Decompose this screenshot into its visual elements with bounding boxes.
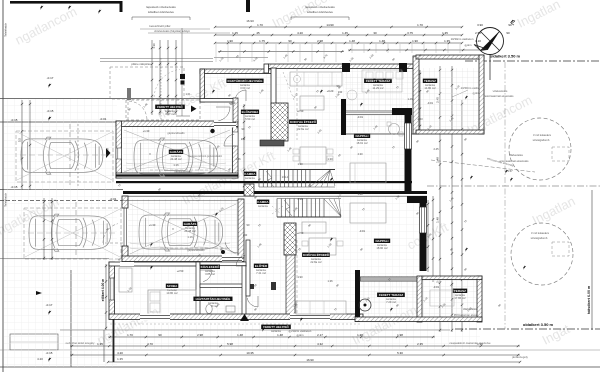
- svg-text:22.8a m2: 22.8a m2: [310, 260, 322, 264]
- svg-text:2.98: 2.98: [297, 197, 303, 201]
- haztartasi B: [193, 297, 232, 301]
- svg-text:18.90 m2: 18.90 m2: [376, 246, 388, 250]
- dining table A: [300, 147, 326, 164]
- svg-text:1.48: 1.48: [357, 192, 363, 196]
- svg-text:-0.01: -0.01: [357, 115, 363, 119]
- terrace A furniture: [362, 70, 402, 92]
- svg-text:90: 90: [288, 39, 292, 43]
- terrace A walls: [344, 64, 416, 69]
- svg-text:3 m2 kukavács: 3 m2 kukavács: [533, 133, 552, 137]
- storage room walls: [200, 69, 272, 74]
- bottom entry label: [261, 325, 291, 329]
- svg-text:10.80 m2: 10.80 m2: [166, 291, 178, 295]
- parking space dashes: [16, 131, 113, 182]
- svg-text:Walvezetés: Walvezetés: [509, 153, 523, 157]
- driveway lines: [0, 121, 117, 123]
- sofa A: [350, 163, 386, 183]
- svg-text:csapadékvíz csatornán elvezetv: csapadékvíz csatornán elvezetve: [449, 341, 491, 345]
- svg-text:KAMRA: KAMRA: [257, 200, 269, 204]
- svg-text:KAMRA: KAMRA: [244, 172, 256, 176]
- svg-text:5.98: 5.98: [227, 342, 233, 346]
- right dim chains: [439, 66, 441, 332]
- svg-text:erevizcsatornán elvezetés: erevizcsatornán elvezetés: [482, 94, 514, 98]
- eresz leader right: [431, 160, 535, 172]
- top dimension chains: [215, 26, 462, 28]
- bottom-left patio: [10, 334, 58, 350]
- svg-text:30: 30: [373, 31, 377, 35]
- svg-text:1.35: 1.35: [97, 342, 103, 346]
- svg-text:240: 240: [241, 137, 246, 141]
- property boundary left: [2, 0, 4, 372]
- svg-text:GARÁZS: GARÁZS: [184, 221, 197, 226]
- svg-text:nehezhet térkő szegély: nehezhet térkő szegély: [66, 341, 95, 345]
- svg-text:TERASZ: TERASZ: [454, 289, 466, 293]
- party line extension right: [427, 185, 600, 187]
- svg-text:4.20: 4.20: [297, 31, 303, 35]
- svg-text:2.17: 2.17: [317, 333, 323, 337]
- terasz B: [453, 289, 467, 293]
- svg-text:1.36: 1.36: [235, 157, 241, 161]
- svg-text:1.90: 1.90: [297, 275, 303, 279]
- svg-text:1.45: 1.45: [342, 31, 348, 35]
- party wall band: [116, 181, 412, 183]
- svg-text:gyám: gyám: [297, 333, 305, 337]
- svg-text:1.48: 1.48: [277, 333, 283, 337]
- svg-text:gépkocsibeálló: gépkocsibeálló: [174, 170, 192, 174]
- svg-text:-0.01: -0.01: [110, 197, 117, 201]
- kitchen counter B: [296, 301, 346, 314]
- svg-text:14.90: 14.90: [326, 23, 334, 27]
- svg-text:lapostető vízelvezetés: lapostető vízelvezetés: [305, 5, 335, 9]
- svg-text:4.20: 4.20: [37, 357, 43, 361]
- garage B floor X: [130, 204, 236, 254]
- bottom dim chains: [108, 336, 435, 338]
- car 2 driveway: [29, 214, 111, 251]
- svg-text:1.38: 1.38: [357, 333, 363, 337]
- svg-text:3 m2 kukavács: 3 m2 kukavács: [531, 231, 550, 235]
- svg-text:4.32: 4.32: [317, 342, 323, 346]
- svg-text:4.30: 4.30: [357, 152, 363, 156]
- svg-text:+2.50: +2.50: [177, 269, 184, 273]
- terrace B walls: [355, 270, 360, 322]
- svg-text:45: 45: [256, 31, 260, 35]
- svg-text:GARÁZS: GARÁZS: [170, 149, 183, 154]
- garage B walls: [122, 196, 128, 208]
- svg-text:gyám: gyám: [465, 43, 473, 47]
- svg-text:hátsókert 6.00 m: hátsókert 6.00 m: [587, 286, 591, 314]
- kozlekedo B: [200, 265, 220, 269]
- svg-text:gépkocsibeálló: gépkocsibeálló: [167, 131, 185, 135]
- svg-text:7.29 m2: 7.29 m2: [386, 300, 396, 304]
- svg-text:24.48 m2: 24.48 m2: [184, 229, 196, 233]
- svg-text:1.30: 1.30: [327, 157, 333, 161]
- entry arrow B: [240, 314, 249, 321]
- svg-text:KONYHA ÉTKEZŐ: KONYHA ÉTKEZŐ: [303, 252, 330, 257]
- svg-text:-0.15: -0.15: [46, 351, 53, 355]
- svg-text:kerámia: kerámia: [271, 329, 281, 333]
- svg-text:1.35: 1.35: [444, 39, 450, 43]
- chimney wall A crosshatch: [271, 68, 276, 105]
- svg-text:1.48: 1.48: [436, 217, 440, 223]
- porch right wall A: [233, 98, 238, 122]
- driveway center dashes: [20, 154, 112, 156]
- svg-text:X: X: [149, 152, 151, 156]
- garage A floor X: [124, 130, 230, 172]
- svg-text:+1.30: +1.30: [143, 129, 150, 133]
- drain dot: [210, 129, 214, 133]
- svg-text:10/30cm vasbeton: 10/30cm vasbeton: [451, 37, 474, 41]
- svg-text:2.98: 2.98: [197, 333, 203, 337]
- svg-text:7.41 m2: 7.41 m2: [256, 271, 266, 275]
- car in garage B: [139, 213, 223, 251]
- kamra A: [244, 172, 256, 176]
- svg-text:-0.01: -0.01: [433, 285, 439, 289]
- svg-text:1.16: 1.16: [187, 235, 193, 239]
- svg-text:KONYHA ÉTKEZŐ: KONYHA ÉTKEZŐ: [290, 119, 317, 124]
- stair B: [276, 199, 278, 218]
- svg-text:5.30: 5.30: [397, 351, 403, 355]
- garage B label: [183, 222, 197, 226]
- svg-text:2.03: 2.03: [417, 117, 423, 121]
- column circle B: [359, 299, 371, 311]
- szoba B walls: [109, 262, 115, 319]
- svg-text:1.36: 1.36: [327, 279, 333, 283]
- paving grid driveway: [4, 99, 117, 367]
- kitchen counter A: [290, 72, 342, 86]
- dining table B: [309, 238, 336, 255]
- svg-text:2.35: 2.35: [417, 342, 423, 346]
- svg-text:1.46: 1.46: [407, 97, 413, 101]
- setback vertical dash right: [504, 62, 506, 329]
- svg-text:1.75: 1.75: [259, 39, 265, 43]
- svg-text:1.98: 1.98: [397, 333, 403, 337]
- kitchen cupboard dash A: [296, 68, 298, 140]
- svg-text:1.90: 1.90: [227, 39, 233, 43]
- svg-text:22.8a m2: 22.8a m2: [297, 127, 309, 131]
- elősz A: [241, 110, 259, 114]
- garage A walls: [116, 121, 238, 127]
- garage B west door arc: [103, 224, 123, 243]
- svg-text:1.25: 1.25: [232, 31, 238, 35]
- extra tick chains near walls: [348, 49, 484, 51]
- car 1 driveway: [21, 137, 103, 174]
- svg-text:vízelvezetés: vízelvezetés: [493, 89, 508, 93]
- svg-text:1.16: 1.16: [152, 43, 156, 49]
- nappali A right wall: [405, 115, 412, 191]
- svg-text:18.91 m2: 18.91 m2: [356, 141, 368, 145]
- soakaway circle 1: [509, 118, 571, 180]
- svg-text:+2.50: +2.50: [229, 101, 236, 105]
- svg-text:1.48: 1.48: [349, 39, 355, 43]
- bottom wall unit B: [109, 314, 363, 320]
- fence bar left: [113, 319, 115, 362]
- svg-text:X: X: [172, 227, 174, 231]
- svg-text:NAPPALI: NAPPALI: [376, 239, 389, 243]
- svg-text:kerámia: kerámia: [245, 176, 255, 180]
- pergola lines above garage A: [100, 58, 213, 60]
- interior floor grids: [123, 122, 233, 174]
- svg-text:240: 240: [243, 233, 248, 237]
- konyha A: [289, 120, 317, 124]
- svg-text:lapostető vízelvezetés: lapostető vízelvezetés: [146, 5, 176, 9]
- oldalkert bottom: [455, 328, 600, 330]
- eloter B: [254, 264, 268, 268]
- svg-text:-0.17: -0.17: [47, 76, 54, 80]
- svg-text:kötélben körülvetve: kötélben körülvetve: [307, 10, 333, 14]
- corner walls top right of nappali A: [392, 108, 412, 115]
- svg-text:Telekhatár: Telekhatár: [4, 23, 8, 37]
- svg-text:1.70: 1.70: [417, 23, 423, 27]
- terrace B table: [430, 290, 454, 306]
- svg-text:FEDETT HELYISŐ: FEDETT HELYISŐ: [157, 104, 183, 109]
- svg-text:-0.15: -0.15: [11, 118, 18, 122]
- svg-text:3.75: 3.75: [407, 31, 413, 35]
- site line y98: [0, 98, 213, 100]
- svg-text:1.48: 1.48: [379, 39, 385, 43]
- svg-text:16.90: 16.90: [246, 19, 254, 23]
- stair A: [258, 170, 260, 188]
- svg-text:oldalkert 3.50 m: oldalkert 3.50 m: [523, 322, 554, 327]
- svg-text:+2.50: +2.50: [297, 231, 304, 235]
- svg-text:-0.17: -0.17: [46, 303, 53, 307]
- svg-text:SZOBA: SZOBA: [167, 284, 178, 288]
- svg-text:4.70: 4.70: [147, 342, 153, 346]
- svg-text:1,01: 1,01: [185, 92, 191, 96]
- bed: [148, 290, 196, 314]
- drive2 bottom line: [0, 258, 109, 260]
- svg-text:szivárgódomb: szivárgódomb: [533, 138, 550, 142]
- svg-text:+0.20: +0.20: [327, 89, 334, 93]
- svg-text:3.85 m2: 3.85 m2: [205, 272, 215, 276]
- svg-text:3.60 m2: 3.60 m2: [240, 86, 250, 90]
- svg-text:-0.01: -0.01: [427, 101, 433, 105]
- roof drainage note brackets: [132, 16, 190, 18]
- terasz A: [423, 79, 437, 83]
- svg-text:kerámia: kerámia: [258, 204, 268, 208]
- svg-text:17.86 m2: 17.86 m2: [454, 296, 466, 300]
- svg-text:-0.15: -0.15: [47, 109, 54, 113]
- svg-text:1.70: 1.70: [257, 23, 263, 27]
- svg-text:vízelvezetés (folyóka) lefolyó: vízelvezetés (folyóka) lefolyó: [154, 29, 190, 33]
- svg-text:keresztirefő pillér: keresztirefő pillér: [149, 24, 170, 28]
- svg-text:16.90: 16.90: [306, 358, 314, 362]
- svg-text:RAKTÁROZÓ HELYISÉG: RAKTÁROZÓ HELYISÉG: [228, 78, 264, 83]
- svg-text:ELŐTÉR: ELŐTÉR: [255, 263, 268, 268]
- svg-text:1.90: 1.90: [412, 39, 418, 43]
- entry arrow A: [191, 106, 197, 113]
- svg-text:2.45: 2.45: [433, 147, 439, 151]
- hatsokert right edge: [591, 190, 593, 330]
- nappali A: [354, 134, 370, 138]
- svg-text:1.16: 1.16: [173, 163, 179, 167]
- svg-text:FEDETT TERASZ: FEDETT TERASZ: [366, 79, 391, 83]
- svg-text:90: 90: [506, 31, 510, 35]
- svg-text:2.98: 2.98: [317, 39, 323, 43]
- svg-text:5,5: 5,5: [18, 138, 22, 142]
- black column marks: [399, 63, 407, 72]
- svg-text:24.48 m2: 24.48 m2: [170, 157, 182, 161]
- entry porch dashed: [110, 67, 184, 99]
- nappali B right wall: [420, 199, 427, 271]
- dim extension drops top: [215, 44, 217, 62]
- car in garage A: [134, 138, 218, 176]
- wall terrace-nappali A: [344, 111, 410, 115]
- svg-text:3.90: 3.90: [477, 23, 483, 27]
- chimney wall B: [284, 223, 296, 255]
- svg-text:HÁZTARTÁSI HELYISÉG: HÁZTARTÁSI HELYISÉG: [196, 296, 231, 301]
- svg-text:11.29 m2: 11.29 m2: [372, 86, 384, 90]
- svg-text:+2.50: +2.50: [297, 109, 304, 113]
- svg-text:5.50 m2: 5.50 m2: [245, 117, 255, 121]
- oldalkert top: [465, 60, 600, 62]
- svg-text:járdaszegély: járdaszegély: [511, 355, 528, 359]
- svg-text:FEDETT TERASZ: FEDETT TERASZ: [379, 293, 404, 297]
- nappali B: [374, 239, 390, 243]
- svg-text:KÖZLEKEDŐ: KÖZLEKEDŐ: [201, 264, 221, 269]
- svg-text:TERASZ: TERASZ: [424, 79, 436, 83]
- svg-text:kötélben körülvetve: kötélben körülvetve: [148, 10, 174, 14]
- svg-text:1.48: 1.48: [237, 333, 243, 337]
- fedett terasz A: [364, 79, 392, 83]
- svg-text:1.35: 1.35: [442, 31, 448, 35]
- sofa B: [350, 203, 386, 223]
- svg-text:1.35: 1.35: [117, 357, 123, 361]
- svg-text:-0.01: -0.01: [100, 117, 107, 121]
- svg-text:pillére rálépülés: pillére rálépülés: [131, 62, 151, 66]
- svg-text:szivárgódomb: szivárgódomb: [531, 236, 548, 240]
- north arrow compass: [477, 28, 504, 55]
- interior walls unit B left block: [196, 262, 200, 319]
- svg-text:FEDETT HELYISŐ: FEDETT HELYISŐ: [263, 324, 289, 329]
- svg-text:-0.01: -0.01: [359, 229, 365, 233]
- svg-text:3.57 m2: 3.57 m2: [165, 112, 175, 116]
- svg-text:10.35: 10.35: [246, 351, 254, 355]
- svg-text:1.48: 1.48: [436, 157, 440, 163]
- svg-text:+1.30: +1.30: [149, 223, 156, 227]
- svg-text:1.90: 1.90: [297, 162, 303, 166]
- fedett terasz B: [377, 293, 405, 297]
- svg-text:gépkocsibeálló: gépkocsibeálló: [187, 248, 205, 252]
- svg-text:90: 90: [158, 333, 162, 337]
- soakaway circle 2: [511, 223, 573, 285]
- svg-text:1.70: 1.70: [127, 333, 133, 337]
- svg-text:14.80 m2: 14.80 m2: [424, 86, 436, 90]
- svg-text:4.20: 4.20: [117, 351, 123, 355]
- svg-text:NAPPALI: NAPPALI: [356, 134, 369, 138]
- svg-text:meghosszabbított gépkocsibeáll: meghosszabbított gépkocsibeálló: [188, 155, 223, 158]
- wall stub top middle: [246, 0, 250, 12]
- svg-text:oldalkert 3.50 m: oldalkert 3.50 m: [490, 54, 521, 59]
- svg-text:előkert 4.00 m: előkert 4.00 m: [101, 279, 105, 302]
- watermark ingatlan texts: [13, 4, 80, 48]
- svg-text:-0.15: -0.15: [11, 185, 18, 189]
- top retaining wall: [10, 1, 121, 4]
- bottom site lines: [0, 349, 600, 351]
- svg-text:ELŐSZOBA: ELŐSZOBA: [242, 109, 260, 114]
- svg-text:232-2: 232-2: [282, 176, 289, 179]
- konyha B: [302, 253, 330, 257]
